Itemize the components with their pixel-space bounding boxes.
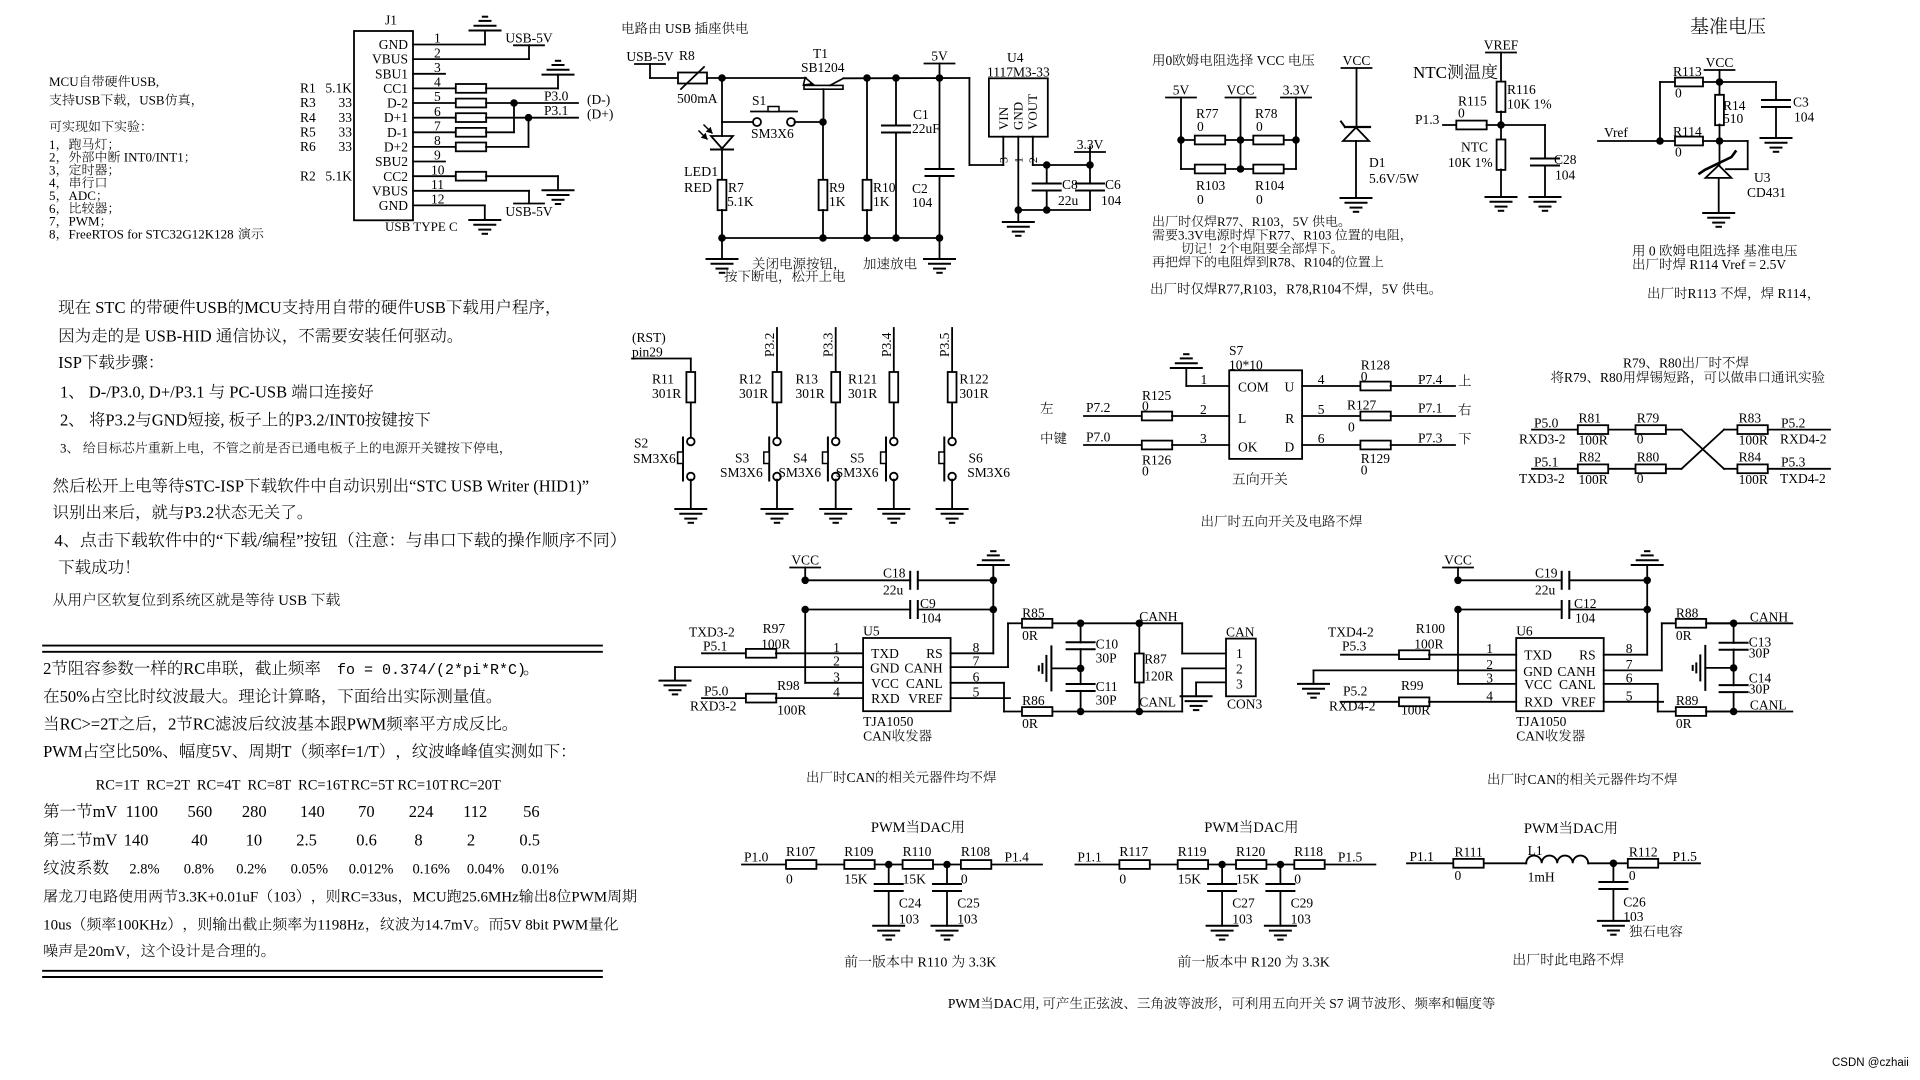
svg-text:VCC: VCC	[791, 553, 819, 568]
svg-text:0.01%: 0.01%	[521, 862, 558, 878]
svg-text:RC=5T: RC=5T	[351, 778, 395, 794]
svg-text:2: 2	[1220, 241, 1227, 256]
svg-text:120R: 120R	[1144, 669, 1173, 684]
svg-text:”: ”	[296, 531, 304, 550]
svg-text:R110: R110	[918, 956, 948, 971]
svg-text:1mH: 1mH	[1528, 870, 1555, 885]
svg-text:R7: R7	[728, 180, 744, 195]
svg-text:R118: R118	[1294, 844, 1323, 859]
svg-text:30P: 30P	[1749, 682, 1770, 697]
svg-text:4: 4	[54, 531, 63, 550]
svg-text:S1: S1	[752, 93, 766, 108]
svg-text:VBUS: VBUS	[372, 183, 408, 198]
svg-text:0.16%: 0.16%	[413, 862, 450, 878]
svg-text:“STC USB Writer (HID1)”: “STC USB Writer (HID1)”	[409, 477, 589, 496]
svg-text:301R: 301R	[848, 386, 877, 401]
svg-text:P3.2/INT0: P3.2/INT0	[295, 411, 365, 430]
svg-text:CSDN @czhaii: CSDN @czhaii	[1832, 1057, 1909, 1069]
svg-text:C24: C24	[899, 896, 922, 911]
svg-text:280: 280	[242, 802, 267, 821]
svg-text:SM3X6: SM3X6	[720, 465, 763, 480]
svg-text:30P: 30P	[1749, 646, 1770, 661]
svg-text:ADC: ADC	[69, 188, 96, 203]
svg-text:P3.3: P3.3	[821, 332, 836, 357]
svg-text:P7.1: P7.1	[1418, 401, 1442, 416]
svg-text:RC=33us: RC=33us	[341, 890, 398, 906]
svg-text:RC=1T: RC=1T	[96, 778, 140, 794]
svg-text:R10: R10	[873, 180, 896, 195]
svg-text:20mV: 20mV	[88, 944, 126, 960]
svg-text:P5.2: P5.2	[1781, 416, 1805, 431]
svg-text:RC=4T: RC=4T	[197, 778, 241, 794]
svg-text:R11: R11	[652, 372, 674, 387]
svg-text:R104: R104	[1255, 178, 1285, 193]
svg-text:301R: 301R	[959, 386, 988, 401]
svg-text:S4: S4	[793, 451, 808, 466]
svg-text:R112: R112	[1629, 845, 1658, 860]
svg-text:U: U	[1285, 380, 1295, 395]
svg-text:SM3X6: SM3X6	[778, 465, 821, 480]
svg-text:RED: RED	[684, 181, 712, 196]
svg-text:P1.5: P1.5	[1338, 850, 1363, 865]
svg-text:P1.5: P1.5	[1673, 849, 1698, 864]
svg-text:3.3V: 3.3V	[1283, 83, 1310, 98]
svg-text:103: 103	[273, 890, 296, 906]
svg-text:DAC: DAC	[1573, 821, 1604, 837]
svg-text:P1.3: P1.3	[1415, 112, 1440, 127]
svg-text:5.6V/5W: 5.6V/5W	[1369, 171, 1419, 186]
svg-text:USB: USB	[139, 93, 165, 108]
svg-text:(D+): (D+)	[587, 107, 613, 122]
svg-text:mV: mV	[93, 831, 118, 850]
svg-text:104: 104	[912, 195, 933, 210]
svg-text:0: 0	[1637, 471, 1644, 486]
svg-text:DAC: DAC	[994, 996, 1023, 1011]
svg-text:S6: S6	[969, 451, 984, 466]
svg-text:R5: R5	[300, 125, 316, 140]
svg-text:RXD4-2: RXD4-2	[1329, 699, 1376, 714]
svg-text:,: ,	[1036, 996, 1039, 1011]
svg-text:PWM: PWM	[948, 996, 980, 1011]
svg-text:GND: GND	[152, 411, 188, 430]
svg-text:3: 3	[997, 157, 1011, 163]
svg-text:CANL: CANL	[1139, 695, 1176, 710]
svg-text:TXD4-2: TXD4-2	[1328, 625, 1374, 640]
svg-text:P7.2: P7.2	[1086, 400, 1110, 415]
svg-text:TXD3-2: TXD3-2	[1519, 471, 1565, 486]
svg-text:0: 0	[1197, 192, 1204, 207]
svg-text:VREF: VREF	[908, 691, 943, 706]
svg-text:0.8%: 0.8%	[184, 862, 214, 878]
svg-text:,: ,	[220, 411, 224, 430]
svg-text:D1: D1	[1369, 155, 1386, 170]
svg-text:0R: 0R	[1676, 628, 1692, 643]
svg-text:3: 3	[60, 441, 67, 456]
svg-text:P5.3: P5.3	[1342, 639, 1367, 654]
svg-text:25.6MHz: 25.6MHz	[462, 890, 519, 906]
svg-text:0.05%: 0.05%	[291, 862, 328, 878]
svg-text:R79: R79	[1637, 411, 1660, 426]
svg-text:5: 5	[434, 89, 441, 104]
svg-text:R77: R77	[1269, 228, 1291, 243]
svg-text:“: “	[216, 531, 224, 550]
svg-text:RC=2T: RC=2T	[146, 778, 190, 794]
svg-text:R12: R12	[739, 372, 762, 387]
svg-text:8: 8	[549, 890, 557, 906]
svg-text:PWM: PWM	[347, 715, 387, 734]
svg-text:3: 3	[1200, 431, 1207, 446]
svg-text:RC>=2T: RC>=2T	[60, 715, 119, 734]
svg-text:MCU: MCU	[49, 74, 79, 89]
svg-text:P7.3: P7.3	[1418, 431, 1443, 446]
svg-text:L: L	[1238, 411, 1246, 426]
svg-text:R4: R4	[300, 110, 316, 125]
svg-text:22u: 22u	[1535, 583, 1556, 598]
svg-text:USB,: USB,	[131, 74, 160, 89]
svg-text:0: 0	[1197, 119, 1204, 134]
svg-text:R119: R119	[1178, 844, 1207, 859]
svg-text:VCC: VCC	[1343, 53, 1371, 68]
svg-text:2: 2	[168, 715, 176, 734]
svg-text:70: 70	[358, 802, 375, 821]
svg-text:VIN: VIN	[996, 106, 1011, 130]
svg-text:100R: 100R	[1579, 472, 1608, 487]
svg-text:R120: R120	[1236, 844, 1266, 859]
svg-text:100KHz: 100KHz	[116, 918, 167, 934]
svg-text:C1: C1	[913, 107, 929, 122]
svg-text:15K: 15K	[1236, 872, 1260, 887]
svg-text:CANH: CANH	[1139, 609, 1178, 624]
svg-text:8: 8	[414, 831, 422, 850]
svg-text:USB: USB	[414, 298, 446, 317]
svg-text:L1: L1	[1528, 843, 1543, 858]
svg-text:2.8%: 2.8%	[129, 862, 159, 878]
svg-text:R9: R9	[829, 180, 845, 195]
svg-text:USB: USB	[665, 21, 691, 36]
svg-text:104: 104	[921, 611, 942, 626]
svg-text:P3.1: P3.1	[544, 103, 568, 118]
svg-text:0: 0	[1458, 106, 1465, 121]
svg-text:15K: 15K	[844, 872, 868, 887]
svg-text:P5.1: P5.1	[1534, 455, 1558, 470]
svg-text:R110: R110	[903, 844, 932, 859]
svg-text:R108: R108	[961, 844, 991, 859]
svg-text:R116: R116	[1507, 82, 1536, 97]
svg-text:R78,R104: R78,R104	[1286, 282, 1341, 297]
svg-text:PWM: PWM	[43, 742, 83, 761]
svg-text:R84: R84	[1739, 450, 1762, 465]
svg-text:R79: R79	[1623, 356, 1646, 371]
svg-text:1100: 1100	[126, 802, 158, 821]
svg-text:SBU1: SBU1	[375, 66, 408, 81]
svg-text:100R: 100R	[777, 703, 806, 718]
svg-text:10: 10	[246, 831, 263, 850]
svg-text:VCC: VCC	[1444, 553, 1472, 568]
svg-text:56: 56	[523, 802, 540, 821]
svg-text:103: 103	[1232, 912, 1253, 927]
svg-text:COM: COM	[1238, 380, 1269, 395]
svg-text:0: 0	[1455, 868, 1462, 883]
svg-text:3.3K: 3.3K	[1302, 956, 1330, 971]
svg-text:VCC: VCC	[1706, 55, 1734, 70]
svg-text:R98: R98	[777, 678, 800, 693]
svg-text:VCC: VCC	[1524, 677, 1552, 692]
svg-text:TJA1050: TJA1050	[863, 714, 913, 729]
svg-text:1: 1	[1201, 372, 1208, 387]
svg-text:C26: C26	[1623, 895, 1646, 910]
svg-text:C9: C9	[920, 596, 936, 611]
svg-text:5V: 5V	[931, 49, 948, 64]
svg-text:R127: R127	[1347, 398, 1377, 413]
svg-text:1: 1	[60, 383, 68, 402]
svg-text:P3.5: P3.5	[937, 332, 952, 357]
svg-text:R80: R80	[1659, 356, 1682, 371]
svg-text:C6: C6	[1105, 177, 1121, 192]
svg-text:2: 2	[60, 411, 68, 430]
svg-text:103: 103	[1291, 912, 1312, 927]
svg-text:R88: R88	[1676, 606, 1699, 621]
svg-text:3: 3	[434, 60, 441, 75]
svg-text:fo = 0.374/(2*pi*R*C): fo = 0.374/(2*pi*R*C)	[337, 662, 526, 679]
svg-text:P5.0: P5.0	[704, 684, 729, 699]
svg-text:OK: OK	[1238, 440, 1258, 455]
svg-text:T: T	[281, 742, 291, 761]
svg-text:RC: RC	[193, 715, 215, 734]
svg-text:RS: RS	[1579, 648, 1596, 663]
svg-text:0: 0	[1637, 432, 1644, 447]
svg-text:SM3X6: SM3X6	[633, 451, 676, 466]
svg-text:301R: 301R	[652, 386, 681, 401]
svg-text:USB TYPE C: USB TYPE C	[385, 219, 458, 234]
svg-text:VREF: VREF	[1484, 38, 1519, 53]
svg-text:SM3X6: SM3X6	[967, 465, 1010, 480]
svg-text:R79: R79	[1564, 370, 1587, 385]
svg-text:5.1K: 5.1K	[325, 168, 352, 183]
svg-text:VCC: VCC	[871, 676, 899, 691]
svg-text:pin29: pin29	[632, 345, 663, 360]
svg-text:4: 4	[1318, 372, 1325, 387]
svg-text:100R: 100R	[761, 637, 790, 652]
svg-text:SBU2: SBU2	[375, 154, 408, 169]
svg-text:0: 0	[1142, 464, 1149, 479]
svg-text:SM3X6: SM3X6	[751, 126, 794, 141]
svg-text:PWM: PWM	[871, 820, 906, 836]
svg-text:510: 510	[1723, 111, 1744, 126]
svg-text:104: 104	[1555, 168, 1576, 183]
svg-text:D: D	[1285, 440, 1295, 455]
svg-text:CAN: CAN	[1528, 772, 1557, 787]
svg-text:R89: R89	[1676, 693, 1699, 708]
svg-text:D+1: D+1	[384, 110, 408, 125]
svg-text:40: 40	[191, 831, 208, 850]
svg-text:5V: 5V	[1173, 83, 1190, 98]
svg-text:12: 12	[431, 192, 445, 207]
svg-text:INT0/INT1: INT0/INT1	[124, 150, 184, 165]
svg-text:D+2: D+2	[384, 140, 408, 155]
svg-text:CAN: CAN	[863, 729, 892, 744]
svg-text:0R: 0R	[1676, 716, 1692, 731]
svg-text:TXD: TXD	[1524, 648, 1552, 663]
svg-text:301R: 301R	[796, 386, 825, 401]
svg-text:1117M3-33: 1117M3-33	[987, 65, 1050, 80]
svg-text:6: 6	[1318, 431, 1325, 446]
svg-text:J1: J1	[385, 13, 397, 28]
svg-text:TJA1050: TJA1050	[1516, 714, 1566, 729]
svg-text:R120: R120	[1251, 956, 1281, 971]
svg-text:NTC: NTC	[1413, 63, 1447, 82]
svg-text:MCU: MCU	[413, 890, 447, 906]
svg-text:22u: 22u	[1058, 193, 1079, 208]
svg-text:100R: 100R	[1739, 472, 1768, 487]
svg-text:D-2: D-2	[387, 96, 408, 111]
svg-text:2: 2	[43, 659, 51, 678]
svg-text:T1: T1	[813, 46, 828, 61]
svg-text:P7.0: P7.0	[1086, 430, 1111, 445]
svg-text:3: 3	[1236, 677, 1243, 692]
svg-text:S7: S7	[1229, 343, 1244, 358]
svg-text:50%: 50%	[60, 687, 91, 706]
svg-text:10K 1%: 10K 1%	[1507, 97, 1552, 112]
svg-text:USB-5V: USB-5V	[505, 204, 553, 219]
svg-text:0: 0	[1142, 399, 1149, 414]
svg-text:0: 0	[1675, 86, 1682, 101]
svg-text:3.3K: 3.3K	[969, 956, 997, 971]
svg-text:CC2: CC2	[383, 169, 408, 184]
svg-text:0.5: 0.5	[519, 831, 540, 850]
svg-text:22uF: 22uF	[912, 121, 940, 136]
svg-text:R13: R13	[796, 372, 819, 387]
svg-text:PWM: PWM	[1204, 820, 1239, 836]
svg-text:FreeRTOS for STC32G12K128: FreeRTOS for STC32G12K128	[69, 226, 234, 241]
svg-text:15K: 15K	[1178, 872, 1202, 887]
svg-text:USB-HID: USB-HID	[145, 327, 212, 346]
svg-text:R3: R3	[300, 95, 316, 110]
svg-text:R: R	[1285, 411, 1294, 426]
svg-text:RC=10T: RC=10T	[398, 778, 449, 794]
svg-text:3.3K+0.01uF: 3.3K+0.01uF	[178, 890, 258, 906]
svg-text:104: 104	[1101, 193, 1122, 208]
svg-text:0: 0	[1629, 868, 1636, 883]
svg-text:PC-USB: PC-USB	[229, 383, 287, 402]
svg-text:R97: R97	[763, 621, 786, 636]
svg-text:CAN: CAN	[1226, 625, 1255, 640]
svg-text:USB: USB	[278, 593, 307, 609]
svg-text:103: 103	[899, 912, 920, 927]
svg-text:RC=8T: RC=8T	[248, 778, 292, 794]
svg-text:TXD3-2: TXD3-2	[689, 625, 735, 640]
svg-text:R107: R107	[786, 844, 816, 859]
svg-text:CC1: CC1	[383, 81, 408, 96]
svg-text:0: 0	[1256, 192, 1263, 207]
svg-text:33: 33	[339, 125, 353, 140]
svg-text:5: 5	[1318, 402, 1325, 417]
svg-text:S7: S7	[1329, 996, 1344, 1011]
svg-text:VBUS: VBUS	[372, 52, 408, 67]
svg-text:R117: R117	[1119, 844, 1148, 859]
svg-text:R121: R121	[848, 372, 877, 387]
svg-text:0.2%: 0.2%	[236, 862, 266, 878]
svg-text:(D-): (D-)	[587, 92, 610, 107]
svg-text:S2: S2	[634, 436, 648, 451]
svg-text:CD431: CD431	[1747, 185, 1786, 200]
svg-text:1: 1	[434, 31, 441, 46]
svg-text:R83: R83	[1739, 411, 1762, 426]
svg-text:100R: 100R	[1739, 433, 1768, 448]
svg-text:ISP: ISP	[58, 353, 82, 372]
svg-text:R81: R81	[1579, 411, 1602, 426]
svg-text:0: 0	[1675, 145, 1682, 160]
svg-text:224: 224	[409, 802, 434, 821]
svg-text:2: 2	[1026, 157, 1040, 163]
svg-text:DAC: DAC	[1253, 820, 1284, 836]
svg-text:RXD4-2: RXD4-2	[1780, 432, 1827, 447]
svg-text:11: 11	[431, 177, 444, 192]
svg-text:0: 0	[1649, 244, 1656, 259]
svg-text:0R: 0R	[1022, 628, 1038, 643]
svg-text:104: 104	[1794, 110, 1815, 125]
svg-text:VCC: VCC	[1257, 53, 1285, 68]
svg-text:R100: R100	[1416, 621, 1446, 636]
svg-text:PWM: PWM	[1524, 821, 1559, 837]
svg-text:50%: 50%	[132, 742, 163, 761]
svg-text:P3.4: P3.4	[879, 332, 894, 357]
svg-text:RXD: RXD	[871, 691, 900, 706]
svg-text:140: 140	[124, 831, 149, 850]
svg-text:P5.0: P5.0	[1534, 416, 1559, 431]
svg-text:104: 104	[1575, 611, 1596, 626]
svg-text:C2: C2	[912, 181, 928, 196]
svg-text:103: 103	[1623, 909, 1644, 924]
svg-text:CANL: CANL	[1559, 677, 1596, 692]
svg-text:R8: R8	[679, 48, 695, 63]
svg-text:8: 8	[434, 133, 441, 148]
svg-text:2: 2	[1200, 402, 1207, 417]
svg-text:500mA: 500mA	[677, 91, 718, 106]
svg-text:3: 3	[833, 669, 840, 684]
svg-text:U3: U3	[1754, 170, 1771, 185]
svg-text:301R: 301R	[739, 386, 768, 401]
svg-text:560: 560	[188, 802, 213, 821]
svg-text:R2: R2	[300, 168, 316, 183]
svg-text:P3.2: P3.2	[185, 503, 215, 522]
svg-text:R86: R86	[1022, 693, 1045, 708]
svg-text:2: 2	[1236, 662, 1243, 677]
svg-text:/: /	[257, 531, 262, 550]
svg-text:TXD4-2: TXD4-2	[1780, 471, 1826, 486]
svg-text:R85: R85	[1022, 606, 1045, 621]
svg-text:S5: S5	[850, 451, 865, 466]
svg-text:4: 4	[434, 75, 441, 90]
svg-text:2.5: 2.5	[296, 831, 317, 850]
svg-text:1: 1	[1012, 157, 1026, 163]
svg-text:CAN: CAN	[847, 770, 876, 785]
svg-text:CANH: CANH	[1750, 610, 1789, 625]
svg-text:C18: C18	[883, 566, 906, 581]
svg-text:5.1K: 5.1K	[325, 81, 352, 96]
svg-text:C25: C25	[957, 896, 980, 911]
svg-text:33: 33	[339, 95, 353, 110]
svg-text:30P: 30P	[1096, 693, 1117, 708]
svg-text:R114: R114	[1778, 286, 1807, 301]
svg-text:DAC: DAC	[920, 820, 951, 836]
svg-text:3: 3	[1486, 670, 1493, 685]
svg-text:1198Hz: 1198Hz	[317, 918, 364, 934]
svg-text:mV: mV	[93, 802, 118, 821]
svg-text:RC: RC	[183, 659, 205, 678]
svg-text:USB: USB	[75, 93, 101, 108]
svg-text:CON3: CON3	[1227, 697, 1263, 712]
svg-text:0: 0	[1256, 119, 1263, 134]
